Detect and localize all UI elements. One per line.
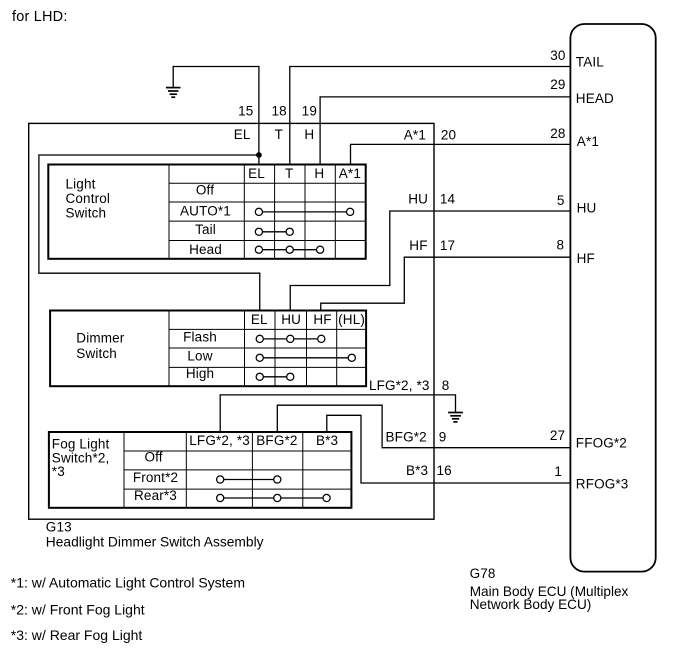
svg-text:Low: Low [187, 349, 212, 364]
wire dimmer HU column to ECU pin 5 HU [290, 211, 570, 311]
svg-text:A*1: A*1 [339, 166, 361, 181]
svg-text:B*3: B*3 [406, 463, 428, 478]
wire EL column to ground [173, 67, 259, 165]
svg-text:TAIL: TAIL [576, 54, 604, 69]
svg-text:EL: EL [234, 127, 251, 142]
ground symbol (EL circuit) [166, 88, 181, 98]
svg-text:Front*2: Front*2 [133, 470, 178, 485]
svg-text:*1: w/ Automatic Light Control: *1: w/ Automatic Light Control System [11, 575, 245, 591]
svg-text:18: 18 [271, 103, 286, 118]
svg-text:HU: HU [281, 312, 301, 327]
svg-text:29: 29 [550, 77, 565, 92]
svg-text:(HL): (HL) [338, 312, 365, 327]
svg-text:LFG*2, *3: LFG*2, *3 [189, 433, 250, 448]
light control switch row labels [180, 183, 231, 257]
light control switch Head contacts [255, 246, 323, 253]
wire fog B*3 column to ECU pin 1 RFOG*3 [327, 415, 571, 483]
svg-text:AUTO*1: AUTO*1 [180, 203, 231, 218]
svg-text:EL: EL [251, 312, 268, 327]
svg-text:Off: Off [144, 450, 162, 465]
svg-text:H: H [304, 127, 314, 142]
svg-text:Rear*3: Rear*3 [134, 488, 177, 503]
svg-text:19: 19 [302, 103, 317, 118]
svg-text:HF: HF [409, 238, 427, 253]
svg-text:EL: EL [248, 166, 265, 181]
svg-text:RFOG*3: RFOG*3 [576, 476, 629, 491]
light control switch table border [48, 165, 365, 259]
svg-text:Headlight Dimmer Switch Assemb: Headlight Dimmer Switch Assembly [46, 535, 264, 550]
wire H column to ECU pin 29 HEAD [320, 97, 570, 165]
light control switch AUTO*1 contacts [255, 208, 353, 215]
wire dimmer HF column to ECU pin 8 HF [321, 257, 571, 310]
svg-text:Switch: Switch [76, 346, 117, 361]
dimmer switch row labels [183, 329, 217, 381]
svg-text:Control: Control [66, 191, 111, 206]
svg-text:Fog Light: Fog Light [52, 436, 110, 451]
light control switch column headers [248, 166, 361, 181]
wire fog LFG column to ground pin 8 [220, 395, 455, 432]
svg-text:BFG*2: BFG*2 [386, 429, 427, 444]
svg-text:for LHD:: for LHD: [12, 9, 68, 25]
light control switch table inner lines [169, 165, 366, 259]
dimmer switch table border [50, 311, 366, 387]
svg-text:HF: HF [577, 251, 595, 266]
node junction on EL wire [256, 152, 262, 158]
fog light switch table border [49, 432, 352, 508]
dimmer switch column headers [251, 312, 365, 327]
wire T column to ECU pin 30 TAIL [290, 67, 571, 165]
svg-text:HU: HU [577, 200, 597, 215]
svg-text:LFG*2, *3: LFG*2, *3 [369, 378, 430, 393]
svg-text:5: 5 [557, 193, 565, 208]
light control switch title [66, 177, 111, 221]
svg-text:1: 1 [554, 464, 562, 479]
dimmer switch table inner lines [169, 311, 366, 387]
svg-text:*2: w/ Front Fog Light: *2: w/ Front Fog Light [11, 602, 145, 618]
svg-text:Network Body ECU): Network Body ECU) [470, 597, 592, 612]
svg-text:HF: HF [313, 312, 331, 327]
svg-text:30: 30 [550, 48, 565, 63]
ground symbol (fog light circuit) [448, 413, 463, 422]
svg-text:FFOG*2: FFOG*2 [576, 436, 627, 451]
G13 connector label [46, 519, 264, 549]
light control switch Tail contacts [255, 228, 293, 235]
svg-text:BFG*2: BFG*2 [256, 433, 297, 448]
dimmer switch Low contacts [256, 354, 355, 361]
svg-text:27: 27 [550, 428, 565, 443]
svg-text:9: 9 [439, 429, 447, 444]
svg-text:HEAD: HEAD [576, 91, 614, 106]
svg-text:A*1: A*1 [577, 134, 599, 149]
svg-text:16: 16 [437, 463, 452, 478]
svg-text:A*1: A*1 [404, 127, 426, 142]
svg-text:Off: Off [196, 183, 214, 198]
wire fog BFG column to ECU pin 27 FFOG*2 [277, 405, 570, 448]
fog light switch row labels [133, 450, 178, 503]
fog light switch table inner lines [124, 432, 351, 508]
svg-text:Switch*2,: Switch*2, [52, 450, 110, 465]
wire A*1 column to ECU pin 28 A*1 [351, 144, 571, 164]
connector G13 Headlight Dimmer Switch Assembly outline [29, 123, 434, 519]
svg-text:Tail: Tail [195, 222, 216, 237]
svg-text:Dimmer: Dimmer [76, 330, 124, 345]
fog light switch Rear*3 contacts [217, 494, 331, 501]
svg-text:High: High [186, 366, 214, 381]
svg-text:8: 8 [557, 237, 565, 252]
dimmer switch Flash contacts [256, 335, 325, 342]
svg-text:Light: Light [66, 177, 96, 192]
fog light switch title [52, 436, 110, 479]
svg-text:*3: w/ Rear Fog Light: *3: w/ Rear Fog Light [11, 627, 143, 643]
dimmer switch title [76, 330, 124, 361]
wire EL branch to dimmer switch EL column [39, 155, 260, 311]
G78 connector label [470, 566, 629, 612]
svg-text:H: H [314, 166, 324, 181]
svg-text:20: 20 [441, 127, 456, 142]
svg-text:Head: Head [189, 242, 222, 257]
svg-text:28: 28 [550, 126, 565, 141]
svg-text:17: 17 [440, 238, 455, 253]
ECU connector G78 outline [570, 24, 655, 572]
dimmer switch High contacts [256, 373, 294, 380]
svg-text:HU: HU [408, 191, 428, 206]
svg-text:15: 15 [238, 103, 253, 118]
svg-text:*3: *3 [52, 464, 65, 479]
svg-text:Switch: Switch [66, 206, 107, 221]
svg-text:Flash: Flash [183, 329, 217, 344]
svg-text:T: T [285, 166, 293, 181]
svg-text:T: T [275, 127, 283, 142]
svg-text:B*3: B*3 [316, 433, 338, 448]
svg-text:G13: G13 [46, 519, 72, 534]
svg-text:8: 8 [442, 378, 450, 393]
svg-text:G78: G78 [470, 566, 496, 581]
fog light switch Front*2 contacts [217, 476, 281, 483]
fog light switch column headers [189, 433, 338, 448]
svg-text:14: 14 [440, 191, 456, 206]
